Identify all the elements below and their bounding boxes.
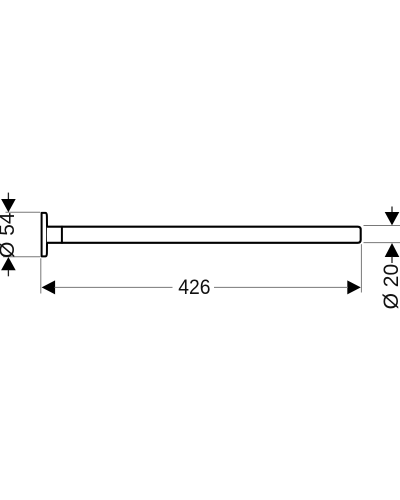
426 right arrowhead [347, 280, 361, 294]
extension line bottom of Ø20 [364, 242, 400, 244]
extension line top of Ø54 [6, 211, 41, 213]
426 left arrowhead [42, 280, 56, 294]
Ø20 dimension line below bottom arrow [391, 257, 393, 264]
extension line top of Ø20 [364, 225, 400, 227]
Ø54 dimension overshoot above top arrow [7, 193, 9, 200]
svg-text:426: 426 [178, 275, 210, 299]
extension line left of 426 (below plate) [40, 258, 42, 293]
extension line right of 426 (below bar end) [360, 244, 362, 292]
Ø54 top arrowhead [1, 199, 16, 212]
junction line between cone and bar [61, 226, 63, 244]
Ø20 top arrowhead [385, 212, 400, 225]
Ø20 bottom arrowhead [385, 243, 400, 257]
426 dimension line left segment [55, 286, 173, 288]
bar (rail with rounded end cap) [47, 227, 361, 243]
svg-text:Ø 54: Ø 54 [0, 212, 19, 258]
Ø20 dimension overshoot above top arrow [391, 207, 393, 213]
Ø54 dimension overshoot below bottom arrow [7, 270, 9, 277]
extension line bottom of Ø54 [3, 256, 40, 258]
wall plate (escutcheon, side view) [42, 213, 48, 257]
Ø54 bottom arrowhead [1, 257, 16, 270]
426 dimension line right segment [214, 286, 348, 288]
svg-text:Ø 20: Ø 20 [380, 264, 400, 310]
